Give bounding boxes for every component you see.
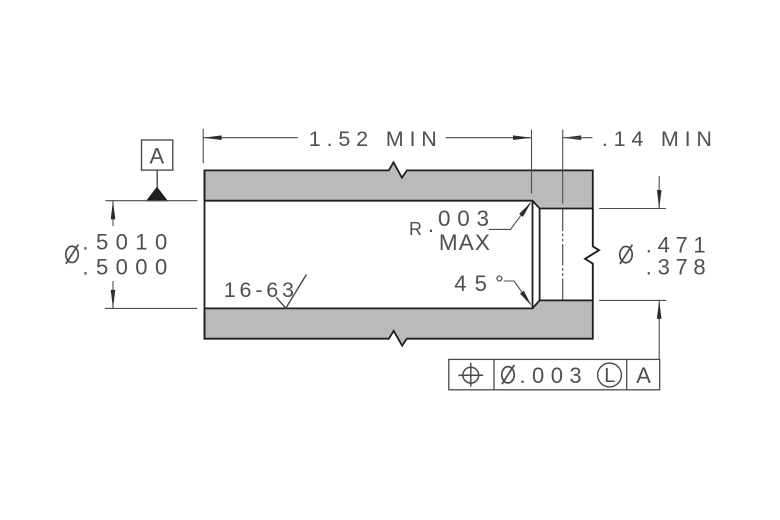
svg-text:R: R	[409, 219, 422, 239]
svg-text:.: .	[428, 212, 434, 237]
extension line lower of small hole dia	[599, 299, 666, 301]
svg-text:MAX: MAX	[439, 230, 490, 255]
extension line left of 1.52 dim	[202, 129, 204, 163]
min full-diameter depth line (dash-dot)	[562, 210, 564, 301]
svg-text:L: L	[604, 365, 615, 387]
dimension tail line .14	[563, 137, 593, 139]
bore dia dimension line upper segment	[112, 201, 114, 226]
arrowhead of .14 dim	[563, 135, 582, 140]
datum A box	[142, 140, 173, 170]
leader line of 45 deg	[504, 281, 531, 304]
feature control frame box	[449, 359, 660, 389]
svg-text:.5000: .5000	[82, 254, 167, 279]
svg-text:A: A	[636, 363, 651, 388]
arrowhead right of 1.52 dim	[513, 135, 532, 140]
surface finish check symbol	[276, 274, 306, 308]
part section lower half (gray) with break zigzag	[205, 300, 593, 345]
LMC modifier circle	[598, 363, 622, 387]
small hole diameter symbol	[620, 245, 633, 264]
chamfer edge line at bore end	[532, 201, 534, 309]
tolerance dia symbol	[502, 365, 515, 384]
small hole dim line lower / leader to control frame	[658, 300, 660, 359]
datum triangle (filled)	[146, 187, 168, 202]
dimension line 1.52 MIN left segment	[203, 137, 298, 139]
part section upper half (gray) with break zigzag	[205, 162, 593, 208]
leader arrowhead R .003 MAX	[519, 202, 531, 217]
extension line lower of bore dia	[105, 307, 197, 309]
extension line for .14 dim	[562, 130, 564, 204]
extension line upper of bore dia	[105, 200, 197, 202]
extension line right of 1.52 dim	[531, 130, 533, 194]
small hole dim line upper	[658, 176, 660, 208]
right break line (lightning) across small hole	[585, 209, 599, 301]
left face edge of part	[204, 170, 206, 340]
leader arrowhead 45 deg	[520, 291, 531, 306]
bore dia dimension line lower segment	[112, 281, 114, 308]
svg-text:A: A	[150, 144, 165, 169]
leader line of R .003 MAX	[489, 203, 530, 230]
bore diameter symbol	[66, 244, 79, 263]
dimension line 1.52 MIN right segment	[446, 137, 532, 139]
arrowhead down of small hole dim	[657, 190, 662, 209]
svg-text:.5010: .5010	[82, 229, 167, 254]
chamfer-to-hole edge line	[539, 209, 541, 301]
position tolerance symbol	[463, 367, 479, 383]
svg-text:003: 003	[438, 206, 489, 231]
svg-text:45°: 45°	[454, 271, 504, 296]
extension line upper of small hole dia	[599, 208, 666, 210]
datum stem	[156, 170, 158, 187]
svg-text:16-63: 16-63	[224, 278, 294, 302]
frame divider 2	[626, 359, 628, 389]
frame divider 1	[493, 359, 495, 389]
arrowhead down of bore dia dim	[111, 290, 116, 309]
arrowhead up of bore dia dim	[111, 201, 116, 220]
arrowhead up of small hole dim	[657, 300, 662, 319]
arrowhead left of 1.52 dim	[203, 135, 222, 140]
